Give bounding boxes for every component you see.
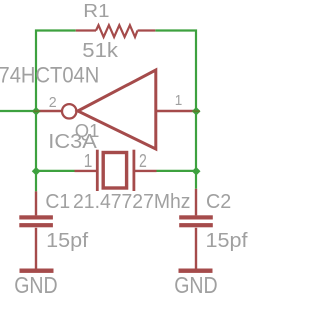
svg-text:15pf: 15pf	[46, 230, 88, 252]
svg-text:GND: GND	[174, 272, 218, 298]
inverter bubble	[62, 104, 76, 118]
svg-text:R1: R1	[83, 0, 109, 21]
junction node at gate input	[192, 107, 201, 116]
capacitor C2 top lead	[195, 189, 197, 216]
inverter triangle IC3A	[78, 70, 156, 149]
junction node at gate output	[32, 107, 41, 116]
svg-text:21.47727Mhz: 21.47727Mhz	[73, 191, 191, 213]
resistor R1	[76, 25, 156, 37]
capacitor C1 bottom lead	[35, 228, 37, 269]
capacitor C1 top lead	[35, 191, 37, 215]
svg-text:2: 2	[49, 94, 57, 111]
svg-text:51k: 51k	[82, 40, 119, 62]
wire crystal left	[36, 170, 75, 172]
junction overlap tint	[33, 110, 40, 112]
junction overlap tint	[193, 110, 200, 112]
capacitor C1 plates	[19, 215, 53, 219]
capacitor C2 bottom lead	[195, 228, 197, 269]
op-amp U1: inverter gate IC3A pin 2 output wire	[36, 110, 62, 112]
svg-text:1: 1	[175, 92, 183, 109]
junction node at crystal right	[192, 167, 201, 176]
crystal Q1 left pin	[75, 170, 97, 172]
svg-text:1: 1	[84, 151, 93, 171]
svg-text:2: 2	[139, 151, 147, 171]
wire crystal right	[157, 170, 197, 172]
svg-text:C2: C2	[206, 191, 231, 213]
svg-text:GND: GND	[14, 272, 58, 298]
inverter pin 1 input wire	[157, 110, 197, 112]
crystal body rectangle	[103, 153, 126, 189]
svg-text:15pf: 15pf	[206, 230, 248, 252]
ground symbol right bar	[179, 269, 213, 273]
crystal left plate	[96, 150, 99, 191]
wire left input net horizontal	[0, 110, 36, 112]
svg-text:74HCT04N: 74HCT04N	[0, 62, 99, 87]
crystal right pin	[134, 170, 157, 172]
capacitor C2 plates	[179, 215, 213, 219]
ground symbol left bar	[20, 269, 54, 273]
wire resistor right to top-right corner and right vertical	[155, 31, 196, 189]
svg-text:IC3A: IC3A	[48, 130, 97, 153]
crystal right plate	[132, 150, 135, 191]
junction node at crystal left	[32, 167, 41, 176]
wire left vertical + top horizontal to resistor	[36, 31, 76, 192]
svg-text:C1: C1	[45, 191, 70, 213]
